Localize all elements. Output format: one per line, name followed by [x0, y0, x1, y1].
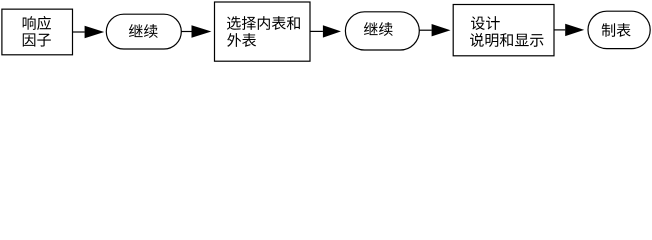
process box: 响应因子 (response factors)	[2, 9, 73, 55]
arrow 2: 继续 -> 选择内表和外表 line	[181, 31, 191, 33]
terminator: 继续 (continue) #1	[106, 14, 181, 49]
arrow 4: 继续 -> 设计说明和显示 head	[432, 24, 451, 36]
label 继续 #2	[364, 22, 393, 36]
terminator: 制表 (tabulate)	[588, 11, 650, 48]
arrow 5: box -> 制表 line	[554, 29, 565, 31]
label 外表 line 2	[227, 33, 256, 47]
terminator: 继续 (continue) #2	[345, 12, 419, 50]
arrow 1: 响应因子 -> 继续 head	[85, 26, 105, 38]
label 设计 line 1	[471, 16, 500, 30]
arrow 5: box -> 制表 head	[565, 24, 584, 36]
process box: 设计说明和显示 (design captions and display)	[453, 5, 554, 56]
label 继续 #1	[129, 24, 158, 38]
label 响应 line 1	[23, 16, 51, 30]
label 选择内表和 line 1	[227, 16, 300, 30]
label 制表	[602, 23, 631, 37]
label 因子 line 2	[23, 33, 51, 46]
arrow 4: 继续 -> 设计说明和显示 line	[419, 29, 431, 31]
label 说明和显示 line 2	[470, 33, 543, 47]
arrow 3: box -> 继续 #2 line	[310, 30, 323, 32]
arrow 2: 继续 -> 选择内表和外表 head	[192, 25, 212, 37]
process box: 选择内表和外表 (choose inner/outer tables)	[215, 2, 311, 61]
arrow 1: 响应因子 -> 继续 line	[73, 31, 85, 33]
arrow 3: box -> 继续 #2 head	[323, 25, 341, 37]
